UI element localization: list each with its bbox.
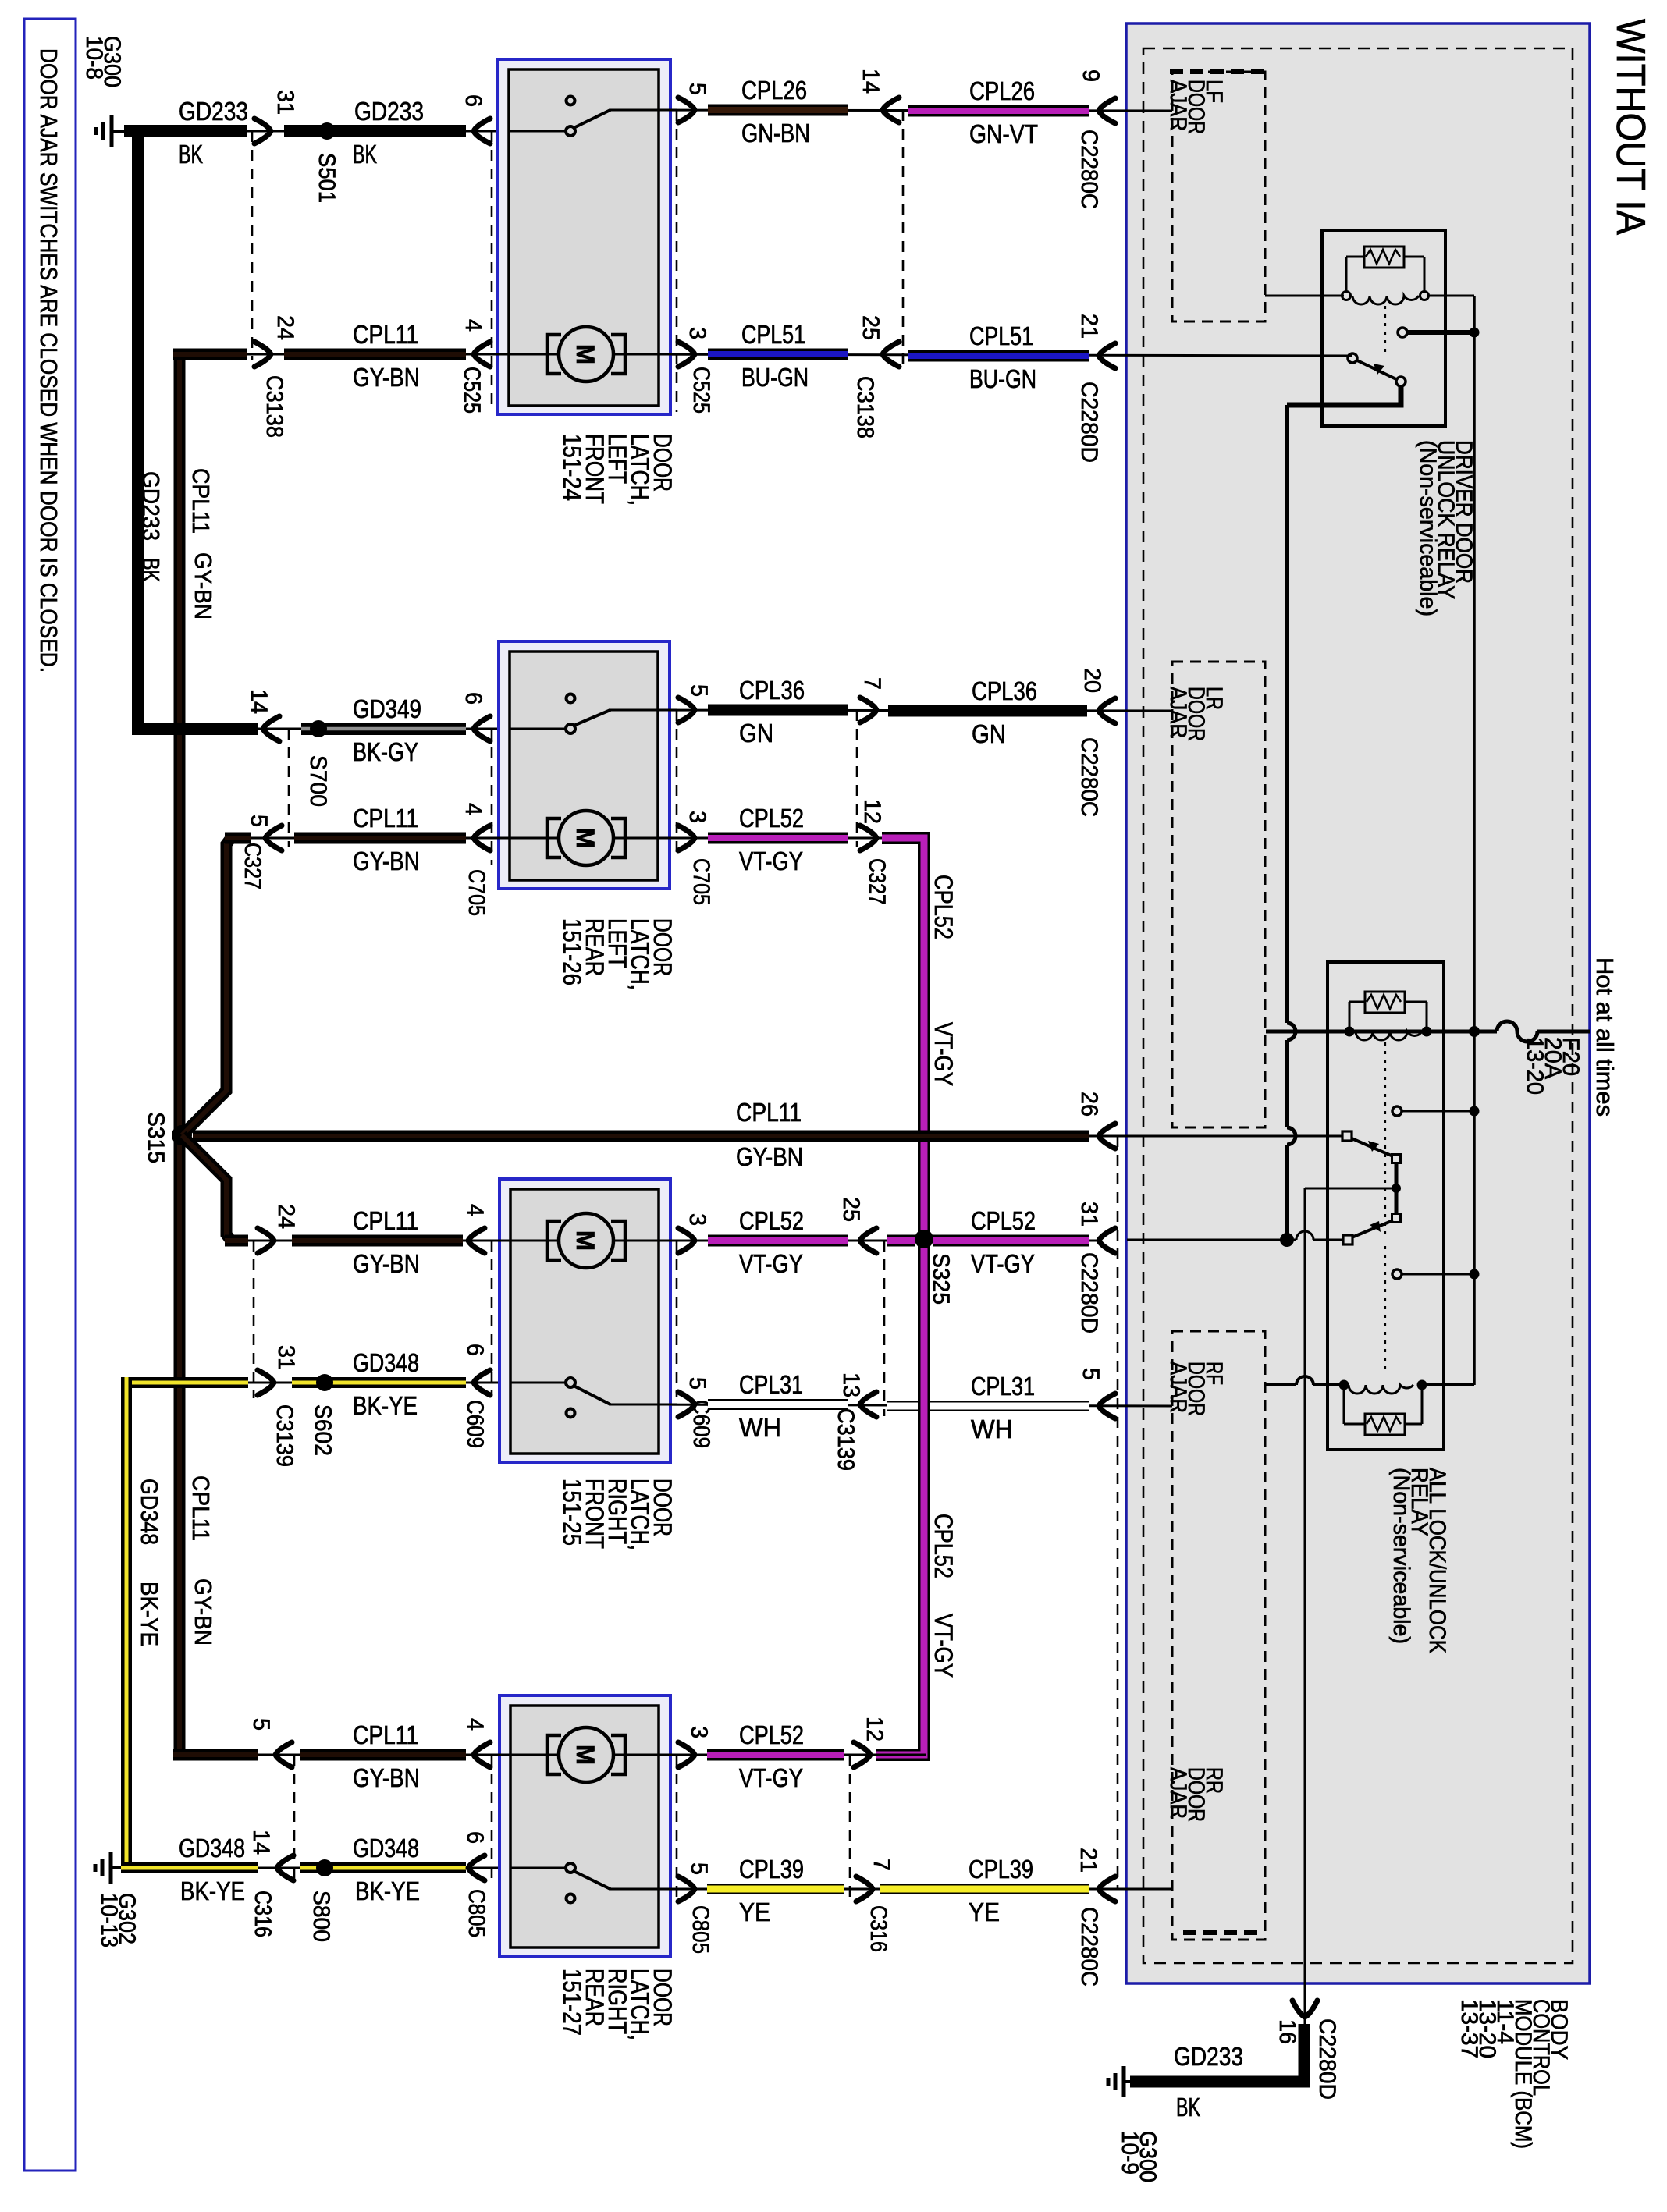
connector C705 right dashed bbox=[676, 710, 678, 857]
module box: BODY CONTROL MODULE (BCM) bbox=[1126, 23, 1590, 1983]
BCM inner dashed boundary bbox=[1143, 48, 1573, 1963]
connector C327 right dashed bbox=[856, 710, 858, 847]
svg-text:C805: C805 bbox=[464, 1889, 489, 1937]
svg-text:CPL36: CPL36 bbox=[739, 676, 805, 705]
svg-text:DOOR AJAR SWITCHES ARE CLOSED: DOOR AJAR SWITCHES ARE CLOSED WHEN DOOR … bbox=[35, 48, 62, 673]
svg-text:C2280D: C2280D bbox=[1314, 2018, 1340, 2100]
motor in RF latch bbox=[492, 1240, 677, 1242]
svg-text:12: 12 bbox=[862, 1717, 887, 1742]
wire GD233 BK vertical bus left bbox=[132, 125, 144, 735]
svg-text:3: 3 bbox=[684, 811, 710, 823]
svg-text:151-25: 151-25 bbox=[558, 1479, 586, 1546]
svg-text:24: 24 bbox=[272, 315, 298, 340]
svg-text:VT-GY: VT-GY bbox=[739, 1763, 803, 1792]
splice S700 bbox=[310, 720, 327, 737]
component box: DOOR LATCH LEFT FRONT bbox=[498, 59, 670, 414]
svg-text:21: 21 bbox=[1076, 314, 1102, 339]
svg-text:26: 26 bbox=[1076, 1092, 1102, 1117]
svg-text:4: 4 bbox=[460, 803, 486, 815]
svg-text:GY-BN: GY-BN bbox=[190, 552, 217, 620]
all lock relay top switch bbox=[1392, 1106, 1402, 1116]
resistor in driver relay bbox=[1364, 247, 1404, 268]
svg-text:24: 24 bbox=[273, 1204, 299, 1229]
connector C805 right dashed bbox=[676, 1755, 678, 1904]
svg-text:CPL52: CPL52 bbox=[929, 1514, 958, 1578]
svg-text:GY-BN: GY-BN bbox=[190, 1578, 217, 1646]
wire CPL52 VT-GY vertical trunk with corners bbox=[876, 838, 924, 1755]
wire GD233/GD349 row LR switch bbox=[132, 728, 566, 730]
svg-text:CPL31: CPL31 bbox=[971, 1372, 1035, 1401]
svg-text:Hot at all times: Hot at all times bbox=[1591, 957, 1619, 1117]
connector C3138 left dashed bbox=[251, 131, 254, 360]
svg-text:GN: GN bbox=[972, 719, 1006, 748]
svg-text:C805: C805 bbox=[688, 1905, 713, 1954]
wire CPL39 YE segment 2 bbox=[880, 1884, 1089, 1894]
wire GD233 BK row LF switch bbox=[124, 130, 566, 133]
svg-text:7: 7 bbox=[869, 1859, 894, 1871]
wire LF door ajar to driver relay coil bbox=[1265, 295, 1344, 297]
svg-text:13: 13 bbox=[838, 1372, 864, 1397]
svg-text:GY-BN: GY-BN bbox=[353, 1763, 420, 1792]
resistor lower in all lock relay bbox=[1365, 1414, 1405, 1435]
connector C3139 right dashed bbox=[883, 1241, 886, 1416]
svg-text:25: 25 bbox=[838, 1197, 864, 1222]
wire S315 branch to LR motor row bbox=[182, 838, 231, 1135]
connector C609 left dashed bbox=[491, 1241, 493, 1395]
svg-text:GD233: GD233 bbox=[1174, 2042, 1243, 2071]
note strip: DOOR AJAR SWITCHES ARE CLOSED WHEN DOOR IS CLOSED. bbox=[24, 19, 76, 2171]
svg-text:CPL51: CPL51 bbox=[969, 321, 1033, 350]
svg-text:CPL11: CPL11 bbox=[353, 1720, 418, 1749]
svg-text:5: 5 bbox=[246, 815, 272, 827]
svg-text:C327: C327 bbox=[240, 843, 265, 889]
svg-text:CPL39: CPL39 bbox=[969, 1855, 1033, 1884]
svg-text:BK-YE: BK-YE bbox=[136, 1582, 163, 1646]
svg-text:VT-GY: VT-GY bbox=[971, 1249, 1035, 1278]
connector C316 right dashed bbox=[849, 1755, 851, 1904]
all lock relay linkage dashed bbox=[1384, 1042, 1386, 1235]
motor in RR latch bbox=[492, 1754, 677, 1756]
svg-text:GD348: GD348 bbox=[136, 1479, 163, 1545]
svg-text:GY-BN: GY-BN bbox=[353, 847, 420, 875]
coil lower in all lock relay bbox=[1339, 1380, 1349, 1390]
svg-text:6: 6 bbox=[462, 1344, 488, 1356]
svg-text:VT-GY: VT-GY bbox=[929, 1614, 958, 1678]
switch in LR latch bbox=[574, 710, 610, 726]
wire CPL39 row RR switch right bbox=[610, 1888, 1172, 1891]
svg-text:7: 7 bbox=[859, 677, 885, 690]
svg-text:S325: S325 bbox=[928, 1253, 954, 1305]
svg-text:CPL11: CPL11 bbox=[353, 804, 418, 833]
pin 16 arrow and wire GD233 BK to ground bbox=[1292, 2001, 1317, 2017]
svg-text:GY-BN: GY-BN bbox=[353, 1249, 420, 1278]
svg-text:5: 5 bbox=[684, 1377, 710, 1390]
svg-text:C3138: C3138 bbox=[261, 375, 287, 438]
svg-text:BK-GY: BK-GY bbox=[353, 737, 418, 766]
svg-text:S501: S501 bbox=[314, 153, 339, 203]
svg-text:5: 5 bbox=[248, 1718, 274, 1731]
svg-text:C2280D: C2280D bbox=[1076, 382, 1102, 463]
coil in driver relay bbox=[1342, 292, 1351, 300]
svg-text:4: 4 bbox=[462, 1718, 488, 1731]
svg-text:C3138: C3138 bbox=[852, 376, 878, 438]
svg-text:CPL26: CPL26 bbox=[741, 76, 807, 105]
svg-text:CPL36: CPL36 bbox=[972, 676, 1037, 705]
component box: DOOR LATCH RIGHT REAR bbox=[499, 1695, 670, 1956]
svg-text:CPL31: CPL31 bbox=[739, 1370, 803, 1399]
svg-text:C705: C705 bbox=[464, 869, 489, 916]
connector C3138 right dashed bbox=[902, 110, 905, 371]
svg-text:CPL51: CPL51 bbox=[741, 320, 805, 349]
svg-text:C2280C: C2280C bbox=[1076, 1907, 1102, 1987]
svg-text:6: 6 bbox=[460, 94, 486, 107]
svg-text:GN-VT: GN-VT bbox=[969, 119, 1038, 148]
svg-text:(Non-serviceable): (Non-serviceable) bbox=[1415, 440, 1441, 616]
wire CPL52 VT-GY LR segment bbox=[708, 833, 848, 844]
svg-text:151-26: 151-26 bbox=[558, 918, 586, 985]
svg-text:C2280D: C2280D bbox=[1076, 1252, 1102, 1333]
svg-text:3: 3 bbox=[684, 327, 710, 339]
svg-text:151-27: 151-27 bbox=[558, 1969, 586, 2036]
ground G300 10-8 bbox=[112, 130, 125, 133]
svg-text:S602: S602 bbox=[310, 1404, 336, 1456]
wire driver relay NO output bbox=[1287, 386, 1401, 405]
svg-text:YE: YE bbox=[739, 1898, 770, 1926]
wire lower coil feed from RF/RR door ajar with hop bbox=[1266, 1383, 1340, 1386]
wire CPL36 GN segment 1 bbox=[708, 705, 848, 716]
svg-text:CPL52: CPL52 bbox=[929, 875, 958, 939]
connector C2280D dashed at BCM bbox=[1117, 1136, 1119, 1889]
wire CPL36 row LR switch right bbox=[610, 710, 1172, 711]
svg-text:CPL26: CPL26 bbox=[969, 76, 1035, 105]
svg-text:C316: C316 bbox=[250, 1891, 275, 1937]
wire vertical from driver relay NO down to CPL52 junction bbox=[1285, 405, 1289, 1240]
svg-text:GD233: GD233 bbox=[354, 97, 424, 126]
svg-text:BK: BK bbox=[179, 140, 203, 169]
svg-text:CPL11: CPL11 bbox=[736, 1098, 802, 1127]
svg-text:(Non-serviceable): (Non-serviceable) bbox=[1388, 1468, 1414, 1644]
svg-text:3: 3 bbox=[686, 1726, 712, 1738]
svg-text:C525: C525 bbox=[459, 367, 485, 414]
driver relay linkage dashed bbox=[1384, 306, 1386, 355]
svg-text:CPL52: CPL52 bbox=[739, 804, 804, 833]
wire GD348 row RF switch bbox=[132, 1382, 566, 1384]
svg-text:21: 21 bbox=[1075, 1848, 1101, 1873]
switch in RR latch bbox=[574, 1871, 610, 1889]
wire CPL51 BU-GN segment 2 bbox=[908, 350, 1089, 362]
svg-text:VT-GY: VT-GY bbox=[929, 1022, 958, 1086]
coil upper in all lock relay bbox=[1356, 1031, 1422, 1040]
wire CPL11 GY-BN row to BCM pin 26 bbox=[193, 1135, 1343, 1138]
svg-text:C705: C705 bbox=[688, 858, 714, 905]
wire CPL11 GY-BN row RR motor bbox=[173, 1754, 547, 1756]
svg-text:CPL11: CPL11 bbox=[353, 320, 418, 349]
wire CPL52 pin31 line inside BCM with hop bbox=[1127, 1239, 1343, 1241]
svg-text:5: 5 bbox=[686, 1862, 712, 1875]
svg-text:CPL52: CPL52 bbox=[739, 1206, 804, 1235]
connector C327 left dashed bbox=[288, 729, 290, 847]
svg-text:3: 3 bbox=[684, 1213, 710, 1226]
wire CPL11 GY-BN row LF motor bbox=[173, 353, 547, 356]
svg-text:BK: BK bbox=[1176, 2093, 1200, 2121]
svg-text:BK-YE: BK-YE bbox=[355, 1876, 420, 1905]
svg-text:C2280C: C2280C bbox=[1076, 737, 1102, 817]
component box: DOOR LATCH LEFT REAR bbox=[499, 641, 670, 889]
svg-text:C525: C525 bbox=[688, 367, 714, 414]
relay: DRIVER DOOR UNLOCK RELAY box bbox=[1322, 230, 1445, 426]
ground G302 10-13 bbox=[111, 1866, 124, 1869]
svg-text:CPL52: CPL52 bbox=[739, 1720, 804, 1749]
svg-text:M: M bbox=[571, 344, 599, 364]
svg-text:25: 25 bbox=[858, 315, 883, 340]
connector C3139 left dashed bbox=[253, 1241, 255, 1398]
svg-text:31: 31 bbox=[272, 90, 298, 115]
wire all lock relay center output to pin 16 vertical bbox=[1305, 1188, 1396, 1190]
switch in RF latch bbox=[574, 1386, 610, 1404]
svg-text:10-9: 10-9 bbox=[1117, 2131, 1143, 2175]
svg-text:20: 20 bbox=[1079, 668, 1105, 693]
svg-text:GD348: GD348 bbox=[353, 1348, 419, 1377]
svg-text:C327: C327 bbox=[864, 858, 890, 905]
dashed box: RF and RR DOOR AJAR switches in BCM bbox=[1172, 1331, 1265, 1940]
svg-text:5: 5 bbox=[1078, 1368, 1104, 1380]
svg-text:S700: S700 bbox=[305, 755, 331, 807]
splice S602 bbox=[316, 1374, 333, 1391]
svg-text:CPL11: CPL11 bbox=[187, 1475, 215, 1541]
svg-text:C316: C316 bbox=[865, 1905, 891, 1952]
wire CPL52 VT-GY RR segment bbox=[707, 1749, 844, 1761]
svg-text:6: 6 bbox=[462, 1831, 488, 1844]
svg-text:BU-GN: BU-GN bbox=[969, 364, 1036, 393]
svg-text:VT-GY: VT-GY bbox=[739, 847, 803, 875]
svg-text:YE: YE bbox=[969, 1898, 1000, 1926]
splice S800 bbox=[316, 1859, 333, 1876]
splice S501 bbox=[318, 122, 336, 140]
svg-text:C609: C609 bbox=[462, 1400, 488, 1448]
svg-text:BK: BK bbox=[137, 558, 165, 582]
svg-text:GD348: GD348 bbox=[179, 1834, 245, 1862]
connector C525 right dashed bbox=[676, 110, 678, 412]
svg-text:WITHOUT IA: WITHOUT IA bbox=[1608, 19, 1653, 235]
svg-text:AJAR: AJAR bbox=[1165, 687, 1191, 738]
dashed box: LR DOOR AJAR switch in BCM bbox=[1172, 662, 1265, 1127]
connector C805 left dashed bbox=[491, 1755, 493, 1882]
svg-text:S800: S800 bbox=[308, 1891, 334, 1942]
splice S325 dot bbox=[915, 1230, 933, 1248]
svg-text:S315: S315 bbox=[143, 1112, 169, 1163]
component box: DOOR LATCH RIGHT FRONT bbox=[499, 1179, 670, 1462]
wire CPL26 row LF switch right bbox=[610, 110, 1172, 111]
wire CPL11 GY-BN row RF motor bbox=[231, 1240, 547, 1242]
wire CPL26 GN-VT segment bbox=[908, 105, 1089, 117]
svg-text:GD348: GD348 bbox=[353, 1834, 419, 1862]
svg-text:6: 6 bbox=[460, 692, 486, 705]
connector C609 right dashed bbox=[676, 1241, 678, 1397]
svg-text:4: 4 bbox=[460, 319, 486, 332]
wire driver relay NC to power vertical bbox=[1407, 330, 1470, 335]
connector C316 left dashed bbox=[293, 1755, 296, 1882]
motor in LR latch bbox=[492, 837, 677, 840]
svg-text:9: 9 bbox=[1078, 69, 1104, 82]
svg-text:C2280C: C2280C bbox=[1076, 130, 1102, 209]
motor in LF latch bbox=[492, 353, 677, 356]
svg-text:13-37: 13-37 bbox=[1456, 1999, 1482, 2058]
wire CPL31 WH segment 1 bbox=[708, 1399, 848, 1410]
all lock relay bottom switch bbox=[1395, 1191, 1399, 1214]
svg-text:BK-YE: BK-YE bbox=[180, 1876, 245, 1905]
wire CPL36 GN segment 2 bbox=[888, 705, 1087, 717]
svg-text:GN: GN bbox=[739, 719, 773, 747]
svg-text:M: M bbox=[571, 1745, 599, 1765]
svg-text:BU-GN: BU-GN bbox=[741, 363, 809, 392]
svg-text:M: M bbox=[571, 828, 599, 848]
switch in LF latch bbox=[574, 110, 610, 128]
svg-text:31: 31 bbox=[273, 1345, 299, 1370]
wire power vertical right bbox=[1473, 296, 1476, 1385]
wire CPL52 VT-GY RF segment 2 with splice S325 bbox=[887, 1235, 915, 1247]
wire CPL26 GN-BN segment bbox=[708, 105, 848, 116]
svg-text:VT-GY: VT-GY bbox=[739, 1249, 803, 1278]
svg-text:C3139: C3139 bbox=[272, 1404, 297, 1467]
svg-text:5: 5 bbox=[686, 684, 712, 697]
driver relay contacts bbox=[1348, 353, 1357, 363]
wire power feed line with fuse bbox=[1266, 1030, 1497, 1034]
svg-text:151-24: 151-24 bbox=[558, 434, 586, 501]
svg-text:GD349: GD349 bbox=[353, 694, 421, 723]
connector C705 left dashed bbox=[491, 729, 493, 865]
wire CPL31 WH segment 2 bbox=[887, 1401, 1089, 1411]
svg-text:CPL11: CPL11 bbox=[187, 468, 215, 534]
wire CPL31 row RF switch right bbox=[610, 1404, 1172, 1406]
splice S315 bbox=[172, 1125, 192, 1145]
svg-text:16: 16 bbox=[1274, 2019, 1300, 2044]
svg-text:BK: BK bbox=[353, 140, 377, 169]
wire CPL52 VT-GY RF segment 1 bbox=[708, 1235, 848, 1247]
svg-text:14: 14 bbox=[246, 689, 272, 714]
relay: ALL LOCK/UNLOCK RELAY box bbox=[1328, 962, 1444, 1450]
wire CPL51 BU-GN segment 1 bbox=[708, 349, 848, 360]
svg-text:CPL39: CPL39 bbox=[739, 1855, 804, 1884]
svg-text:GD233: GD233 bbox=[137, 471, 165, 541]
svg-text:GY-BN: GY-BN bbox=[736, 1142, 803, 1171]
svg-text:12: 12 bbox=[859, 799, 885, 824]
svg-text:AJAR: AJAR bbox=[1165, 80, 1191, 131]
wire CPL39 YE segment 1 bbox=[707, 1884, 844, 1894]
svg-text:31: 31 bbox=[1076, 1202, 1102, 1227]
wire S315 branch to RF motor row bbox=[182, 1135, 231, 1241]
svg-text:GY-BN: GY-BN bbox=[353, 363, 420, 392]
svg-text:AJAR: AJAR bbox=[1165, 1767, 1191, 1819]
ground G300 10-9 bbox=[1124, 2080, 1137, 2083]
svg-text:14: 14 bbox=[248, 1830, 274, 1855]
svg-text:10-8: 10-8 bbox=[81, 36, 107, 80]
svg-text:M: M bbox=[571, 1230, 599, 1251]
dashed box: LF DOOR AJAR switch in BCM bbox=[1172, 72, 1265, 321]
svg-text:14: 14 bbox=[858, 69, 883, 94]
svg-text:GN-BN: GN-BN bbox=[741, 119, 810, 147]
svg-text:BK-YE: BK-YE bbox=[353, 1391, 418, 1420]
connector C525 left dashed bbox=[491, 131, 493, 412]
wire GD348 BK-YE vertical bus left bbox=[121, 1377, 132, 1872]
svg-text:CPL11: CPL11 bbox=[353, 1206, 418, 1235]
svg-text:WH: WH bbox=[971, 1415, 1013, 1443]
resistor upper in all lock relay bbox=[1365, 992, 1405, 1013]
wire CPL11 GY-BN row LR motor bbox=[231, 837, 547, 840]
svg-text:C3139: C3139 bbox=[833, 1408, 858, 1471]
svg-text:GD233: GD233 bbox=[179, 97, 248, 126]
svg-text:WH: WH bbox=[739, 1413, 781, 1442]
svg-text:4: 4 bbox=[462, 1204, 488, 1216]
svg-text:10-13: 10-13 bbox=[96, 1893, 122, 1947]
fuse F20 bbox=[1497, 1021, 1537, 1042]
wire GD348 row RR switch bbox=[116, 1867, 566, 1869]
wire CPL11 GY-BN main vertical bus bbox=[174, 349, 186, 1760]
svg-text:5: 5 bbox=[684, 83, 710, 95]
svg-text:CPL52: CPL52 bbox=[971, 1206, 1036, 1235]
svg-text:13-20: 13-20 bbox=[1522, 1037, 1548, 1095]
